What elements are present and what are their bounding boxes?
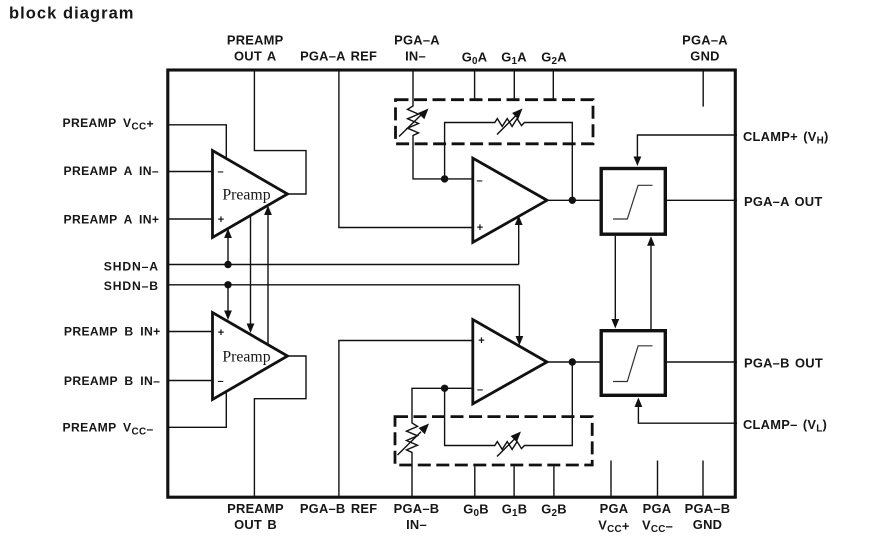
svg-text:PREAMP B IN–: PREAMP B IN– <box>64 374 160 388</box>
svg-text:–: – <box>217 376 223 388</box>
svg-text:Preamp: Preamp <box>222 187 270 204</box>
svg-text:PGA–A REF: PGA–A REF <box>300 49 377 64</box>
svg-text:PREAMP: PREAMP <box>227 33 284 48</box>
svg-text:–: – <box>476 175 482 187</box>
svg-text:OUT B: OUT B <box>234 517 277 532</box>
svg-text:PGA–B OUT: PGA–B OUT <box>744 356 823 371</box>
svg-text:SHDN–B: SHDN–B <box>104 279 159 293</box>
svg-text:PGA–B: PGA–B <box>685 501 731 516</box>
svg-text:block diagram: block diagram <box>9 4 135 22</box>
svg-text:PREAMP: PREAMP <box>227 501 284 516</box>
svg-text:GND: GND <box>693 517 722 532</box>
svg-text:+: + <box>477 222 483 234</box>
svg-text:PGA–A OUT: PGA–A OUT <box>744 194 822 209</box>
svg-text:IN–: IN– <box>405 49 426 64</box>
svg-text:IN–: IN– <box>406 517 427 532</box>
svg-text:GND: GND <box>690 49 719 64</box>
svg-text:PREAMP B IN+: PREAMP B IN+ <box>64 325 161 339</box>
svg-text:PGA: PGA <box>600 501 629 516</box>
svg-text:CLAMP+ (VH): CLAMP+ (VH) <box>743 129 829 147</box>
svg-text:CLAMP– (VL): CLAMP– (VL) <box>743 417 827 435</box>
svg-text:PGA–A: PGA–A <box>394 33 440 48</box>
svg-text:SHDN–A: SHDN–A <box>104 259 159 273</box>
svg-text:+: + <box>218 327 224 339</box>
svg-text:PGA–B: PGA–B <box>394 501 440 516</box>
svg-text:PREAMP A IN+: PREAMP A IN+ <box>64 213 160 227</box>
svg-text:PREAMP A IN–: PREAMP A IN– <box>64 164 159 178</box>
svg-text:PGA–A: PGA–A <box>682 33 728 48</box>
svg-text:–: – <box>217 166 223 178</box>
svg-text:PGA: PGA <box>643 501 672 516</box>
svg-text:Preamp: Preamp <box>222 349 270 366</box>
svg-text:OUT A: OUT A <box>234 49 276 64</box>
svg-text:+: + <box>478 335 484 347</box>
svg-text:–: – <box>477 384 483 396</box>
svg-text:PGA–B REF: PGA–B REF <box>300 501 378 516</box>
svg-text:+: + <box>218 214 224 226</box>
